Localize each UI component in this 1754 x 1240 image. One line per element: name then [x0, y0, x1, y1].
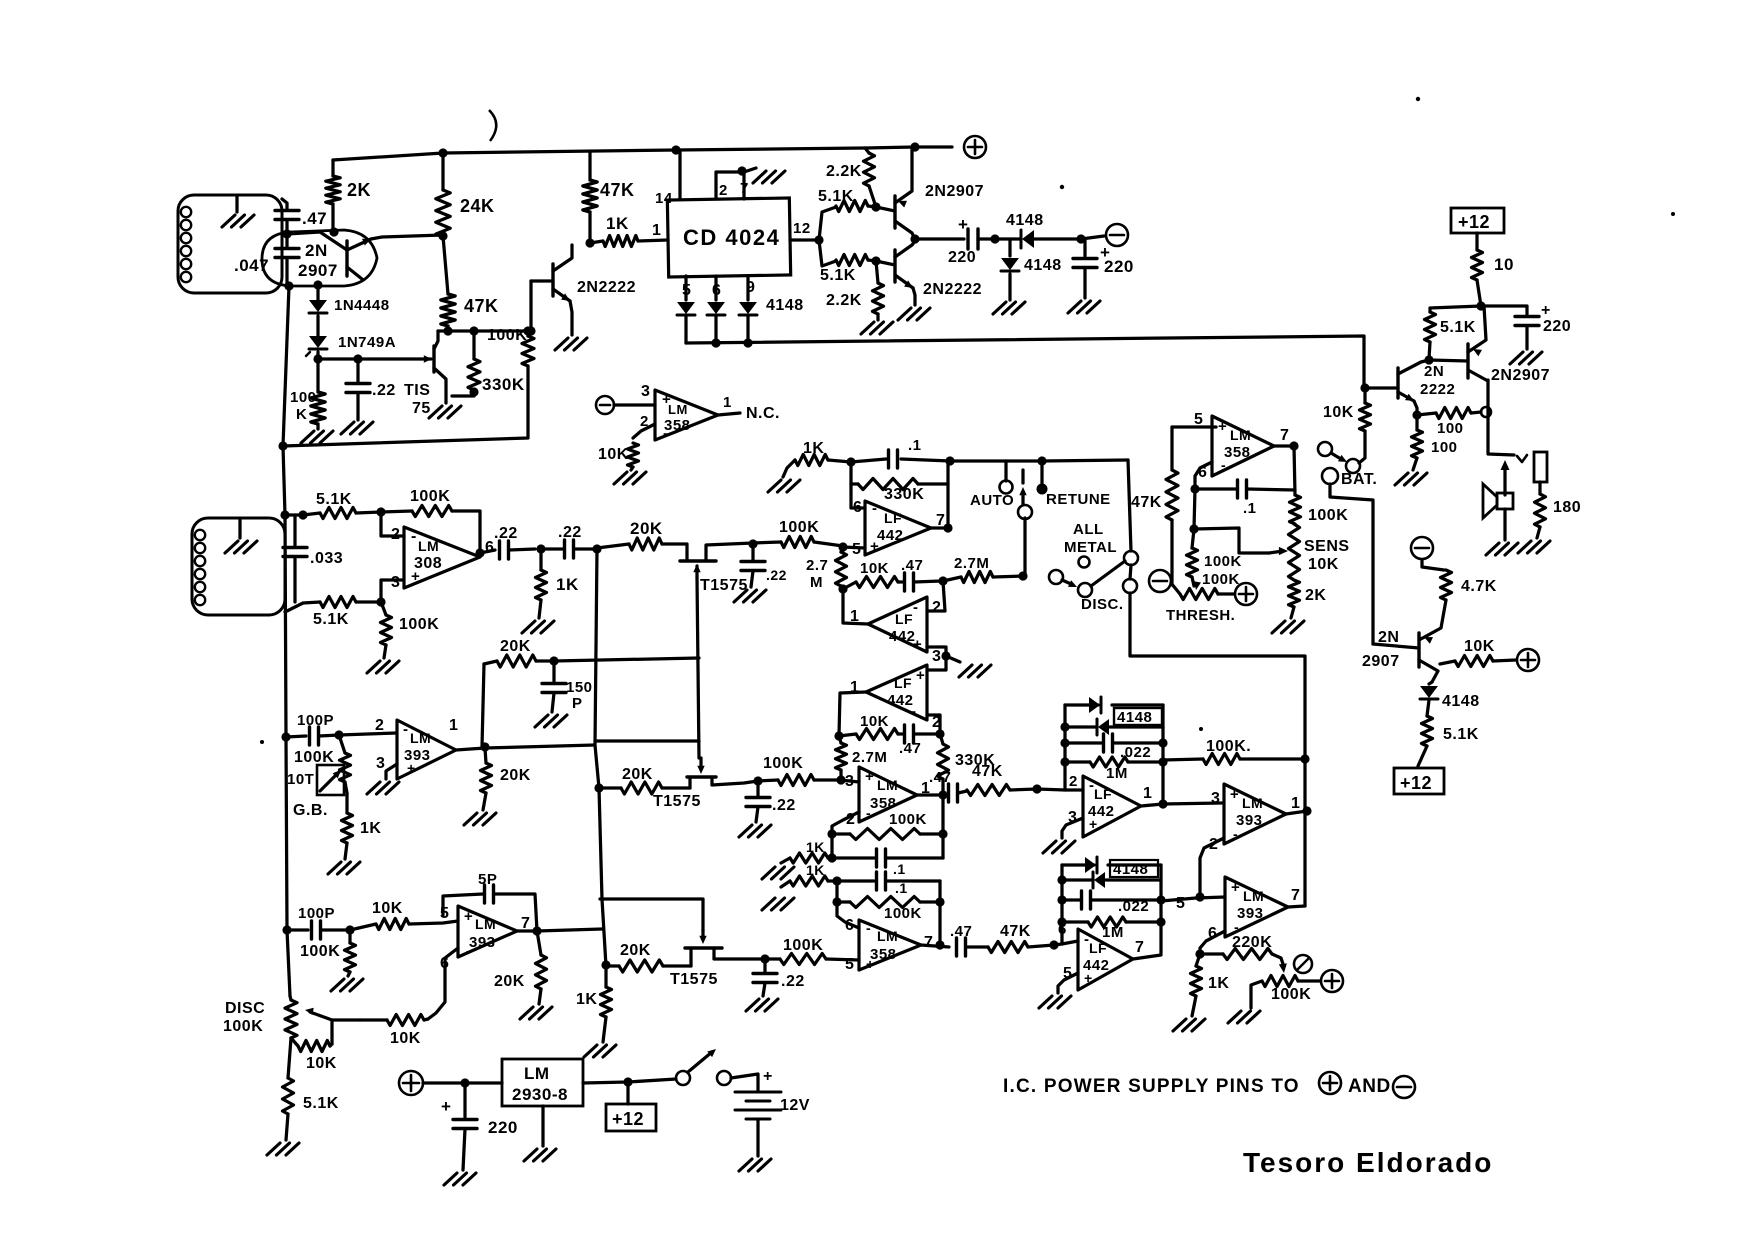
- stray pen mark: [489, 110, 496, 141]
- node supply out: [1476, 301, 1485, 310]
- node bus-coil2: [280, 510, 289, 519]
- svg-text:.22: .22: [494, 525, 518, 542]
- wire Q2 base to drain node: [529, 281, 532, 331]
- node s2 bus: [594, 783, 603, 792]
- svg-text:5.1K: 5.1K: [303, 1095, 339, 1112]
- svg-text:2: 2: [1069, 773, 1078, 790]
- pot THRESH: [1166, 581, 1235, 624]
- svg-text:220: 220: [488, 1118, 518, 1137]
- svg-text:.22: .22: [766, 567, 787, 583]
- ground coil L2: [225, 520, 257, 553]
- terminal - audio: [1411, 537, 1433, 559]
- svg-text:100K: 100K: [779, 519, 819, 536]
- svg-text:1: 1: [449, 717, 458, 734]
- switch th out: [1318, 442, 1360, 473]
- transistor Q2 2N2222: [531, 245, 636, 335]
- wire fb vertical a: [941, 795, 944, 858]
- ground 220 supply: [444, 1173, 476, 1185]
- regulator LM2930: [502, 1059, 583, 1106]
- capacitor .22 b-in: [753, 959, 805, 996]
- svg-text:6: 6: [485, 539, 494, 556]
- wire to 5.1K upper: [819, 207, 836, 240]
- svg-text:-: -: [663, 425, 669, 442]
- svg-text:358: 358: [1224, 444, 1251, 461]
- wire gate tee b: [600, 899, 703, 930]
- pin2 stub spare: [633, 413, 655, 438]
- resistor 10K fb2: [839, 713, 902, 740]
- svg-text:220: 220: [1543, 318, 1571, 335]
- svg-text:AND: AND: [1348, 1076, 1391, 1097]
- resistor 1K fb b: [781, 862, 837, 887]
- wire to minus terminal: [1081, 236, 1104, 239]
- transistor Q3 2N2907: [876, 147, 984, 239]
- resistor 100K th gnd: [1187, 529, 1242, 588]
- wire osc bottom rail: [283, 366, 528, 446]
- svg-text:3: 3: [391, 574, 400, 591]
- op-amp U7a LF442: [1068, 776, 1152, 837]
- svg-text:4148: 4148: [1113, 861, 1148, 878]
- svg-text:10K: 10K: [306, 1055, 337, 1072]
- capacitor .47 b: [950, 923, 988, 956]
- svg-text:5.1K: 5.1K: [313, 611, 349, 628]
- diode 4148 pin9: [739, 297, 804, 343]
- svg-text:5.1K: 5.1K: [1443, 726, 1479, 743]
- svg-text:100: 100: [1431, 439, 1458, 456]
- capacitor .47 a: [929, 769, 967, 802]
- node bus-100p: [281, 732, 290, 741]
- svg-text:-: -: [1233, 826, 1238, 842]
- svg-text:4148: 4148: [1024, 257, 1062, 274]
- svg-text:CD 4024: CD 4024: [683, 225, 780, 250]
- svg-text:150: 150: [566, 679, 593, 696]
- label AUTO arrow: [0, 0, 1, 1]
- transistor Q4 2N2222: [876, 241, 982, 305]
- node out lm393b: [1302, 806, 1311, 815]
- capacitor .47 fb2: [899, 725, 940, 757]
- svg-text:7: 7: [1135, 939, 1144, 956]
- node base upper: [871, 202, 880, 211]
- ground 10K spare: [614, 472, 646, 484]
- resistor 2.7M v1: [806, 547, 847, 591]
- svg-text:METAL: METAL: [1064, 539, 1117, 556]
- resistor 100K gb: [294, 735, 351, 793]
- wire pin6 stub b: [837, 881, 859, 928]
- svg-text:4148: 4148: [1006, 212, 1044, 229]
- transistor Q7 2N2907: [1362, 600, 1446, 682]
- resistor 330K osc: [452, 331, 525, 396]
- op-amp U4c LF442: [850, 665, 941, 731]
- node cap22-row: [353, 354, 362, 363]
- svg-text:3: 3: [932, 648, 941, 665]
- node fb b1: [832, 897, 841, 906]
- resistor 20K hold: [484, 638, 554, 667]
- svg-text:1: 1: [652, 222, 661, 239]
- wire pin6 drop c: [1200, 931, 1225, 954]
- switch ALLMETAL contact: [1124, 551, 1138, 565]
- node out-20K: [480, 742, 489, 751]
- wire int2 pin2 drop: [929, 581, 945, 611]
- op-amp U5b LM358: [845, 917, 933, 973]
- node blkB r r: [1156, 917, 1165, 926]
- capacitor .022 b: [1062, 891, 1161, 915]
- ground 100K rx: [367, 661, 399, 673]
- jack 180: [1534, 452, 1547, 494]
- svg-text:3: 3: [1211, 790, 1220, 807]
- resistor 5.1K rx bottom: [285, 597, 381, 629]
- svg-text:220: 220: [948, 249, 976, 266]
- op-amp U4b LF442: [850, 597, 941, 665]
- node fb2 right: [935, 729, 944, 738]
- wire mid bus: [686, 336, 1364, 388]
- wire retune pole: [1023, 518, 1026, 575]
- ground 20K b: [520, 1007, 552, 1019]
- node envelope-diode: [313, 280, 322, 289]
- resistor 2.7M h1: [943, 555, 1023, 583]
- diode 4148 b1: [1062, 857, 1161, 873]
- svg-text:-: -: [1234, 919, 1239, 935]
- svg-text:+: +: [1541, 302, 1551, 319]
- node diode-cap220: [1076, 234, 1085, 243]
- resistor 20K s3: [606, 942, 691, 972]
- resistor 100K retune pot: [1251, 976, 1320, 1009]
- capacitor .47: [275, 199, 327, 234]
- wire fb vertical b: [938, 881, 941, 945]
- transistor Q6 2N2907: [1468, 306, 1550, 384]
- speck d: [260, 740, 264, 744]
- node pin6 th: [1190, 484, 1199, 493]
- svg-text:2.7M: 2.7M: [954, 555, 989, 572]
- diode 4148 q7: [1420, 682, 1480, 716]
- resistor 47K a: [967, 763, 1037, 796]
- node th mid: [1189, 524, 1198, 533]
- resistor 1K fb a: [781, 839, 832, 863]
- node out a4: [1158, 799, 1167, 808]
- block B right bus: [1159, 865, 1162, 953]
- ground pin3 a4: [1043, 841, 1075, 853]
- diode 4148 pin5: [677, 302, 695, 343]
- resistor 180: [1535, 494, 1582, 538]
- ground 1K gb: [328, 862, 360, 874]
- resistor 20K s2: [599, 766, 690, 794]
- terminal + q7: [1517, 649, 1539, 671]
- wire bat to q7: [1330, 484, 1373, 644]
- svg-text:220: 220: [1104, 257, 1134, 276]
- speck c: [1671, 212, 1675, 216]
- node fb1: [838, 584, 847, 593]
- capacitor .022 a: [1065, 734, 1163, 761]
- node 330K-drain: [469, 326, 478, 335]
- node s3 bus: [601, 960, 610, 969]
- wire out lm393d: [517, 929, 602, 931]
- switch RETUNE contact: [1037, 461, 1111, 508]
- op-amp U6a LM393: [376, 717, 458, 779]
- resistor 10K spare: [598, 443, 639, 470]
- svg-text:47K: 47K: [972, 763, 1003, 780]
- transistor Q1 2N2907 envelope: [262, 230, 377, 286]
- wire bus-rxtop: [285, 513, 303, 516]
- node 2K-base: [329, 227, 338, 236]
- node cap-base: [282, 229, 291, 238]
- ground 220 out: [1510, 352, 1542, 364]
- wire 1k-cap: [541, 547, 562, 550]
- svg-text:LM: LM: [524, 1064, 550, 1083]
- svg-text:AUTO: AUTO: [970, 492, 1014, 509]
- wire out th: [1274, 444, 1294, 447]
- node output emitters: [910, 234, 919, 243]
- transistor Q5 2N2222: [1366, 360, 1455, 415]
- svg-text:3: 3: [376, 755, 385, 772]
- svg-text:1: 1: [1291, 795, 1300, 812]
- svg-text:442: 442: [889, 628, 916, 645]
- node rail-24K: [438, 148, 447, 157]
- wire gate tee a: [595, 739, 699, 742]
- wire left bus: [283, 286, 290, 996]
- switch pole disc: [1049, 561, 1125, 597]
- wire out a: [917, 793, 943, 796]
- ground 100K osc: [301, 431, 333, 443]
- ground pins 2-7: [744, 168, 785, 183]
- ground 5.1K disc: [267, 1143, 299, 1155]
- node switch feed: [1018, 571, 1027, 580]
- node q5 q6 base: [1424, 355, 1433, 364]
- svg-text:20K: 20K: [500, 638, 531, 655]
- wire q6 base row: [1429, 360, 1468, 361]
- node retune net: [1195, 949, 1204, 958]
- label ALL METAL: [1064, 521, 1117, 568]
- svg-text:LM: LM: [1242, 795, 1263, 811]
- node fb b3: [832, 876, 841, 885]
- svg-text:M: M: [810, 574, 823, 591]
- svg-text:2222: 2222: [1420, 381, 1455, 398]
- svg-text:442: 442: [877, 527, 904, 544]
- ground 1K fb b: [762, 898, 794, 910]
- terminal - spare: [596, 396, 614, 414]
- resistor 2.7M v2: [836, 736, 888, 780]
- node bus-q5: [1360, 383, 1369, 392]
- node 47K-1K: [585, 238, 594, 247]
- wire to 5.1K lower: [819, 240, 836, 266]
- node blkA r r: [1158, 757, 1167, 766]
- resistor 1K rx: [536, 549, 579, 618]
- op-amp U6c LM393: [1208, 877, 1300, 942]
- node fb a1: [827, 829, 836, 838]
- wire disc wiper: [332, 1020, 360, 1044]
- resistor 4.7K: [1422, 560, 1497, 600]
- svg-text:442: 442: [887, 692, 914, 709]
- svg-text:LM: LM: [410, 730, 431, 746]
- terminal + supply: [964, 136, 986, 158]
- svg-text:5.1K: 5.1K: [316, 491, 352, 508]
- svg-text:10T: 10T: [287, 771, 314, 788]
- coil L1 TX: [178, 195, 282, 293]
- svg-text:20K: 20K: [630, 519, 663, 538]
- ground 100K b2: [331, 979, 363, 991]
- svg-text:-: -: [403, 721, 409, 738]
- ground cap 220: [1068, 301, 1100, 313]
- wire pin2 drop b: [1200, 838, 1224, 897]
- resistor 100K in1: [753, 519, 843, 548]
- svg-text:+: +: [441, 1097, 451, 1116]
- capacitor .22 s1: [741, 544, 787, 587]
- svg-text:393: 393: [469, 934, 496, 951]
- node signal bus top: [592, 544, 601, 553]
- label 4148 a: [1114, 708, 1162, 726]
- ic U1 CD4024: [667, 198, 790, 277]
- svg-text:100K: 100K: [783, 937, 823, 954]
- resistor 100K rx gnd: [381, 602, 440, 658]
- svg-text:LF: LF: [894, 675, 912, 691]
- svg-text:DISC: DISC: [225, 1000, 265, 1017]
- node 1k tap: [536, 544, 545, 553]
- ground .22 b-in: [746, 999, 778, 1011]
- wire out lm308: [480, 550, 495, 553]
- capacitor .1 fb b: [837, 872, 940, 896]
- resistor 100K b-in: [765, 937, 859, 965]
- battery 12V: [731, 1068, 810, 1156]
- ground .22 osc: [341, 422, 373, 434]
- wire sw to 10K: [1359, 431, 1365, 463]
- ground 1K retune: [768, 480, 800, 492]
- node 100p out: [334, 730, 343, 739]
- svg-text:SENS: SENS: [1304, 538, 1350, 555]
- op-amp U4a LF442: [852, 499, 945, 558]
- node rx bottom: [376, 597, 385, 606]
- svg-text:.033: .033: [310, 550, 343, 567]
- wire minus to pin3: [614, 383, 655, 405]
- svg-text:3: 3: [641, 383, 650, 400]
- node base-drain: [526, 326, 535, 335]
- svg-text:+: +: [1231, 879, 1240, 896]
- wire pin3 lm308: [381, 580, 404, 602]
- node pin5 int1: [838, 542, 847, 551]
- svg-text:+12: +12: [1458, 212, 1490, 232]
- svg-text:LM: LM: [877, 928, 898, 944]
- transistor TIS75: [404, 331, 446, 417]
- wire supply in: [423, 1081, 502, 1084]
- resistor 100K osc: [290, 359, 325, 429]
- svg-text:.022: .022: [1118, 898, 1149, 915]
- svg-text:.22: .22: [558, 524, 582, 541]
- svg-text:1K: 1K: [806, 839, 825, 855]
- svg-text:7: 7: [924, 934, 933, 951]
- terminal + note: [1319, 1072, 1341, 1094]
- wire pin2 lm393a: [339, 717, 397, 735]
- block B left bus: [1060, 865, 1063, 944]
- ground Q2 emitter: [555, 338, 587, 350]
- svg-text:LF: LF: [1094, 786, 1112, 802]
- svg-text:T1575: T1575: [653, 793, 701, 810]
- node lm308 out: [475, 548, 484, 557]
- resistor 220K: [1200, 934, 1283, 964]
- svg-text:100K: 100K: [294, 749, 334, 766]
- svg-text:5P: 5P: [478, 871, 497, 888]
- svg-text:.22: .22: [781, 973, 805, 990]
- svg-text:4148: 4148: [766, 297, 804, 314]
- svg-text:+: +: [763, 1068, 773, 1085]
- wire pin5 int1: [843, 547, 865, 548]
- svg-text:2: 2: [640, 413, 649, 430]
- svg-text:330K: 330K: [884, 486, 924, 503]
- wire pin2 stub a: [832, 812, 859, 858]
- capacitor .22 b: [558, 524, 597, 558]
- ground speaker: [1486, 543, 1518, 555]
- svg-text:K: K: [296, 406, 307, 423]
- block A right bus: [1161, 705, 1164, 804]
- node zener-100K: [313, 354, 322, 363]
- node rx pin2: [376, 507, 385, 516]
- svg-text:47K: 47K: [1000, 923, 1031, 940]
- node blkB c r: [1156, 895, 1165, 904]
- node pin6 bus: [711, 338, 720, 347]
- svg-text:LF: LF: [895, 611, 913, 627]
- node bus-rail: [278, 441, 287, 450]
- terminal - thresh: [1149, 570, 1171, 592]
- svg-text:100K.: 100K.: [1206, 738, 1251, 755]
- resistor 5.1K disc: [283, 1038, 339, 1140]
- resistor 330K v2: [938, 734, 996, 793]
- terminal - osc: [1106, 224, 1128, 246]
- resistor 1K retune b: [1191, 954, 1230, 1016]
- capacitor .033: [283, 515, 343, 602]
- coil L2 RX: [192, 518, 285, 615]
- wire out a4: [1141, 803, 1222, 806]
- svg-text:2N2907: 2N2907: [1491, 367, 1550, 384]
- zener 1N749A: [306, 334, 396, 359]
- switch AUTO contact: [970, 461, 1014, 509]
- resistor 100K sens top: [1290, 495, 1349, 524]
- wire drain line: [438, 329, 528, 332]
- svg-text:100K: 100K: [1308, 507, 1348, 524]
- resistor 47K th: [1131, 427, 1178, 585]
- svg-text:I.C. POWER SUPPLY PINS TO: I.C. POWER SUPPLY PINS TO: [1003, 1076, 1300, 1097]
- pin 12 wire: [790, 220, 819, 240]
- node q5 emitter: [1412, 410, 1421, 419]
- svg-text:10K: 10K: [860, 713, 889, 730]
- svg-text:-: -: [872, 500, 878, 517]
- node pin3 a: [836, 775, 845, 784]
- resistor 2K sens: [1289, 580, 1327, 618]
- resistor 1M b: [1062, 917, 1161, 941]
- svg-text:-: -: [913, 599, 919, 616]
- capacitor 220 filter: [1073, 239, 1134, 298]
- resistor 5.1K q7: [1418, 716, 1479, 766]
- wire out int1: [931, 461, 948, 528]
- ground 1K retune b: [1173, 1019, 1205, 1031]
- svg-text:10K: 10K: [1323, 404, 1354, 421]
- label +12 mid: [606, 1082, 656, 1131]
- node base lower: [871, 256, 880, 265]
- capacitor .1 th: [1195, 480, 1295, 517]
- resistor 100 h: [1417, 407, 1491, 437]
- node emitter-24K: [438, 231, 447, 240]
- svg-text:.1: .1: [908, 437, 922, 454]
- wire out int3: [839, 692, 866, 736]
- svg-text:.1: .1: [893, 861, 906, 877]
- svg-text:2N2222: 2N2222: [577, 279, 636, 296]
- svg-text:2.7M: 2.7M: [852, 749, 887, 766]
- svg-text:LF: LF: [884, 510, 902, 526]
- block A left bus: [1063, 705, 1066, 790]
- node rail-2N2907 emitter: [910, 142, 919, 151]
- svg-text:10K: 10K: [390, 1030, 421, 1047]
- svg-text:100K: 100K: [1204, 553, 1242, 570]
- pot wiper retune: [1279, 955, 1312, 973]
- capacitor .22 osc: [346, 359, 396, 420]
- capacitor 5p loop: [443, 871, 537, 931]
- wire reg out: [583, 1079, 676, 1083]
- node pin5 b: [760, 954, 769, 963]
- capacitor 100p b2: [287, 905, 350, 939]
